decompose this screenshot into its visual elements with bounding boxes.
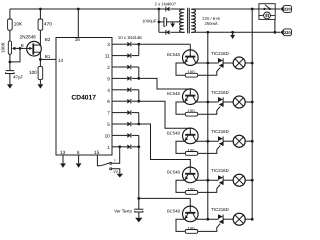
node diode pair junction [137,145,140,148]
node pot bottom junction [9,61,12,64]
transformer T1 core [187,8,189,34]
wire box to terminal [275,8,280,10]
svg-text:3: 3 [107,42,110,47]
wire gate lead ch3 [198,146,221,154]
wire contact VV to ground [112,169,120,174]
svg-text:4: 4 [107,88,110,93]
resistor R 470 [38,19,43,30]
node ver-texto junction [137,197,140,200]
svg-text:BC548: BC548 [167,52,180,57]
node diode pair junction [137,100,140,103]
node lamp bus junction ch1 [251,62,254,65]
wire triac to lamp ch1 [223,62,233,64]
svg-text:5: 5 [107,122,110,127]
wire collector to triac ch1 [196,62,219,64]
node wiper junction [19,47,22,50]
svg-text:10 x 1N4148: 10 x 1N4148 [118,35,142,40]
diode D8 1N4148 [127,122,131,127]
diode D11 1N4007 [165,7,167,12]
svg-text:16: 16 [75,37,81,42]
node MT1 bus junction ch5 [206,218,209,221]
node lamp bus junction ch3 [251,140,254,143]
resistor R 100 ch1 [185,73,197,77]
capacitor C 1000uF [159,21,164,23]
wire 10K top lead [9,9,11,19]
triac TR4 TIC216D [219,176,223,180]
triac TR2 TIC216D [219,97,223,101]
node V+ junction at pin16 drop [77,8,80,11]
node rectifier top junction [158,8,161,11]
wire lamp bus [251,9,253,219]
node AC ground stub junction [231,31,234,34]
wire feed channel 2 [139,78,191,89]
wire rectifier V+ vertical [158,9,160,32]
wire collector to triac ch2 [196,101,219,103]
node lamp bus junction ch2 [251,101,254,104]
svg-text:220: 220 [284,7,291,12]
wire gate lead ch4 [198,185,221,193]
wire diode D6 cathode [132,100,139,102]
resistor R 100 ch3 [185,152,197,156]
wire top diode anode [159,8,166,10]
wire triac to lamp ch4 [223,179,233,181]
wire diode D2 cathode [132,55,139,57]
diode D4 1N4148 [127,76,131,81]
node lamp bus top junction [251,8,254,11]
wire feed channel 4 [139,124,191,167]
wire lamp to bus ch5 [245,218,252,220]
wire B1 to pin 14 [40,58,56,60]
svg-text:2N2646: 2N2646 [19,34,36,39]
wire emitter loop ch3 [176,141,185,153]
switch S1 contact I [110,162,112,164]
wire pin 13 ground stub [62,155,64,163]
svg-text:10K: 10K [14,22,23,27]
wire bottom diode to secondary [170,31,184,33]
wire top diode to secondary [170,8,184,10]
wire ver-texto cap to ground [138,212,140,218]
node pin1 switch junction [118,145,121,148]
lamp L5 [233,213,245,225]
wire lamp to bus ch3 [245,140,252,142]
node lamp bus junction ch5 [251,218,254,221]
wire diode pair 7-5 bus [138,113,140,124]
switch S1 lever [101,163,110,166]
svg-text:6: 6 [107,99,110,104]
wire pin 1 stub [112,146,127,148]
wire diode D4 cathode [132,77,139,79]
ground under 47uF [7,84,13,88]
wire switch box drop [274,19,276,32]
wire pin 2 stub [112,66,127,68]
wire pin 3 stub [112,43,127,45]
lamp L2 [233,96,245,108]
transformer T1 primary winding [191,9,195,32]
wire pin 9 stub [112,77,127,79]
transistor Q2 BC548 [183,50,199,66]
wire pin 11 stub [112,55,127,57]
node diode pair junction [137,123,140,126]
svg-text:11: 11 [105,54,110,59]
diode D9 1N4148 [127,133,131,138]
svg-text:TIC216D: TIC216D [211,51,229,56]
diode D2 1N4148 [127,53,131,58]
wire pin 8 ground stub [78,155,80,163]
lamp L1 [233,57,245,69]
svg-text:E: E [21,43,24,48]
wire diode D5 cathode [132,89,139,91]
wire lamp to bus ch4 [245,179,252,181]
svg-text:BC548: BC548 [167,91,180,96]
capacitor 47uF [6,70,14,72]
transistor Q5 BC548 [183,167,199,183]
terminal 220 at y32.3 [280,29,283,36]
triac TR1 TIC216D [219,58,223,62]
resistor R 100 ch2 [185,112,197,116]
wire pin 4 stub [112,89,127,91]
ground under 100 [38,84,44,88]
wire diode pair 10-1 bus [138,135,140,146]
svg-text:1: 1 [107,145,110,150]
wire triac MT1 bus [207,32,209,219]
ground under ver texto cap [135,218,142,223]
svg-text:100: 100 [29,70,37,75]
wire primary bottom AC line [192,31,280,33]
wire diode pair 3-11 bus [138,44,140,55]
transistor Q6 BC548 [183,206,199,222]
wire diode D8 cathode [132,123,139,125]
svg-text:220 / 6+6: 220 / 6+6 [202,16,220,21]
svg-text:14: 14 [58,58,64,63]
svg-text:2 x 1N4007: 2 x 1N4007 [155,2,177,7]
wire gate lead ch1 [198,67,221,75]
wire diode D1 cathode [132,43,139,45]
wire feed channel 5 [138,147,140,199]
node filter cap junction [158,21,161,24]
wire pot bottom lead [9,54,11,70]
ground at center tap [172,22,174,24]
wire 100 to ground [39,80,41,85]
svg-text:BC548: BC548 [167,208,180,213]
wire pin 16 supply [77,9,79,38]
wire primary top to switch box [192,8,259,10]
wire collector to triac ch5 [196,218,219,220]
wire B1 column [39,52,41,66]
node V+ junction at 470 [39,8,42,11]
node diode pair junction [137,43,140,46]
node MT1 bus junction ch1 [206,62,209,65]
diode D6 1N4148 [127,99,131,104]
wire 470 top lead [39,9,41,19]
ground on AC line [232,32,234,35]
wire emitter loop ch4 [176,180,185,192]
potentiometer wiper arrow [13,47,27,49]
svg-text:220: 220 [284,30,291,35]
resistor R 100 ch4 [185,191,197,195]
wire contact I to pin1 net [112,147,120,164]
svg-text:B1: B1 [45,54,51,59]
wire emitter loop ch2 [176,102,185,114]
op-amp U1 CD4017 body [56,38,112,156]
svg-text:TIC216D: TIC216D [211,129,229,134]
potentiometer P1 100K body [8,41,11,54]
wire triac to lamp ch2 [223,101,233,103]
svg-text:B2: B2 [45,37,51,42]
terminal 220 at y9 [280,6,283,13]
switch S2 contact left [263,8,265,10]
wire triac to lamp ch5 [223,218,233,220]
switch box S2 outline [259,4,275,20]
wire diode D9 cathode [132,134,139,136]
diode D3 1N4148 [127,65,131,70]
resistor R 100 ch5 [185,230,197,234]
wire V+ rail top [10,8,159,10]
wire through switch box [259,8,275,10]
triac TR3 TIC216D [219,137,223,141]
svg-text:8: 8 [77,150,80,155]
wire feed channel 3 [139,101,191,128]
transistor Q3 BC548 [183,89,199,105]
svg-text:TIC216D: TIC216D [211,207,229,212]
wire collector to triac ch4 [196,179,219,181]
svg-text:Ver Texto: Ver Texto [114,208,132,213]
wire 10K to potentiometer [9,30,11,41]
node lamp bus junction ch4 [251,179,254,182]
wire lamp to bus ch2 [245,101,252,103]
wire cap to ground [9,74,11,85]
switch S2 lever [265,5,270,9]
transistor Q1 2N2646 UJT [27,41,42,56]
svg-text:10: 10 [105,133,111,138]
diode D5 1N4148 [127,88,131,93]
wire pin 10 stub [112,134,127,136]
wire pin 15 to switch [97,155,100,166]
svg-text:9: 9 [107,76,110,81]
wire triac to lamp ch3 [223,140,233,142]
svg-text:I: I [114,157,115,162]
node B1 junction [39,58,42,61]
wire wiper to pot bottom [10,48,20,62]
node MT1 bus junction ch4 [206,179,209,182]
node switch box drop junction [274,31,277,34]
wire collector to triac ch3 [196,140,219,142]
ground under switch [117,174,124,178]
wire 470 to B2 [39,30,41,45]
wire lamp to bus ch1 [245,62,252,64]
neon lamp in switch box [264,12,271,19]
node MT1 bus junction ch2 [206,101,209,104]
svg-text:CD4017: CD4017 [71,94,96,101]
lamp L3 [233,135,245,147]
wire pin 6 stub [112,100,127,102]
wire emitter loop ch1 [176,63,185,75]
transformer T1 secondary winding [180,9,185,32]
svg-text:250mA: 250mA [204,21,217,26]
wire pin 5 stub [112,123,127,125]
diode D7 1N4148 [127,110,131,115]
wire emitter loop ch5 [176,219,185,231]
wire feed channel 1 [139,43,191,45]
svg-text:2: 2 [107,65,110,70]
capacitor C ver texto [134,208,143,210]
resistor R 100 emitter [38,66,43,79]
svg-text:I/V: I/V [114,170,119,174]
wire diode D3 cathode [132,66,139,68]
diode D10 1N4148 [127,145,131,150]
wire bottom diode anode [159,31,166,33]
wire diode pair 4-6 bus [138,90,140,101]
transistor Q4 BC548 [183,128,199,144]
svg-text:13: 13 [60,150,66,155]
wire gate lead ch2 [198,106,221,114]
wire diode pair 2-9 bus [138,67,140,78]
svg-text:15: 15 [94,150,100,155]
node MT1 bus junction ch3 [206,140,209,143]
ground pin 13 [60,163,66,167]
ground pin 8 [76,163,82,167]
node diode pair junction [137,77,140,80]
svg-text:TIC216D: TIC216D [211,168,229,173]
diode D12 1N4007 [165,30,167,35]
wire diode D7 cathode [132,112,139,114]
svg-text:7: 7 [107,111,110,116]
switch S1 contact VV [110,168,112,170]
svg-text:TIC216D: TIC216D [211,90,229,95]
wire pin 7 stub [112,112,127,114]
wire gate lead ch5 [198,224,221,232]
lamp L4 [233,174,245,186]
svg-text:100K: 100K [1,42,6,53]
diode D1 1N4148 [127,42,131,47]
node AC line to triac bus [206,31,209,34]
svg-text:BC548: BC548 [167,169,180,174]
svg-text:470: 470 [44,22,52,27]
wire diode D10 cathode [132,146,139,148]
switch S2 contact right [269,8,271,10]
svg-text:BC548: BC548 [167,130,180,135]
svg-text:47µF: 47µF [13,74,23,79]
resistor R 10K [8,19,13,30]
triac TR5 TIC216D [219,215,223,219]
svg-text:1000µF: 1000µF [142,18,157,23]
